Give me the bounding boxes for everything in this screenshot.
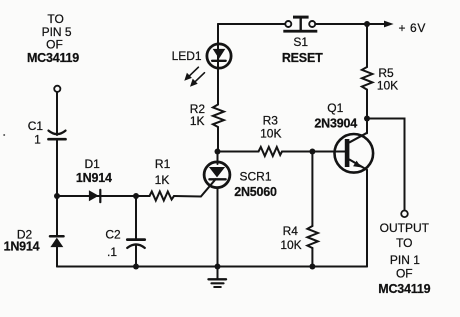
svg-text:1N914: 1N914 [76,171,112,185]
svg-text:R3: R3 [263,113,279,127]
svg-text:1N914: 1N914 [4,240,40,254]
paper speck [3,134,5,136]
svg-text:10K: 10K [260,127,281,141]
wire SCR cathode to ground rail [217,188,219,266]
wire LED branch vertical (top rail to R2) [217,24,219,105]
LED light arrow 2 [190,73,205,87]
svg-text:OUTPUT: OUTPUT [380,221,430,235]
node base/R4 junction [309,149,315,155]
svg-text:R4: R4 [283,224,299,238]
diode D1 1N914 [76,157,112,202]
svg-text:1K: 1K [155,173,170,187]
wire SCR gate [174,179,216,196]
resistor R3 10K [259,113,283,156]
node C2 rail junction [133,264,139,270]
wire terminal to C1 [56,92,58,135]
svg-text:C1: C1 [28,119,44,133]
node R4 rail junction [309,264,315,270]
switch S1 [282,16,323,65]
wire C2 to rail [135,245,137,267]
svg-text:.1: .1 [107,245,117,259]
LED light arrow 1 [184,67,198,81]
svg-text:C2: C2 [105,227,121,241]
node ground junction [215,264,221,270]
wire bottom rail [57,266,367,268]
svg-text:D1: D1 [85,157,101,171]
node collector junction [364,116,370,122]
wire collector to junction [366,119,368,134]
wire C1 to junction [56,141,58,197]
wire R3/base run [218,151,259,153]
svg-text:R1: R1 [155,157,171,171]
svg-text:2N5060: 2N5060 [234,185,277,199]
+6V supply arrow [384,21,426,35]
svg-text:LED1: LED1 [172,49,202,63]
node C2 top junction [133,193,139,199]
node top rail junction [364,21,370,27]
svg-text:S1: S1 [293,35,308,49]
svg-text:1: 1 [34,132,41,146]
wire C2 branch [135,196,137,238]
svg-text:MC34119: MC34119 [27,51,79,65]
LED1 [172,44,232,68]
svg-text:SCR1: SCR1 [239,169,271,183]
wire D1 row [57,195,150,197]
svg-text:+ 6V: + 6V [399,21,426,35]
wire R2 to SCR junction [217,127,219,152]
wire output from collector [367,119,405,211]
diode D2 1N914 [4,228,64,254]
svg-text:10K: 10K [377,79,398,93]
wire top rail left segment [218,23,285,25]
svg-text:Q1: Q1 [327,101,343,115]
capacitor C1 .1 [28,119,66,146]
svg-text:OF: OF [46,38,63,52]
wire emitter down to rail [366,170,368,267]
svg-text:MC34119: MC34119 [378,282,430,296]
node left junction [54,193,60,199]
svg-text:10K: 10K [280,238,301,252]
SCR1 2N5060 [204,162,277,199]
input label [27,12,79,65]
resistor R1 1K [150,157,175,200]
wire D2 to rail [56,247,58,266]
ground [209,267,227,288]
svg-text:TO: TO [396,236,412,250]
svg-text:2N3904: 2N3904 [314,117,357,131]
svg-text:TO: TO [47,12,63,26]
svg-text:1K: 1K [190,114,205,128]
svg-text:RESET: RESET [282,51,323,65]
output label [378,221,430,296]
output terminal [401,211,408,218]
input terminal (to pin 5) [54,86,60,92]
resistor R5 10K [362,24,398,119]
wire top rail right segment [315,23,385,25]
node SCR anode junction [215,149,221,155]
wire SCR anode from junction [217,152,219,165]
capacitor C2 .1 [105,227,144,259]
resistor R4 10K [280,152,318,267]
transistor Q1 2N3904 [314,101,373,173]
svg-text:PIN 1: PIN 1 [390,253,420,267]
wire D2 branch [56,196,58,235]
wire R3 to Q1 base [282,151,345,153]
svg-text:OF: OF [396,267,413,281]
resistor R2 1K [190,102,224,128]
